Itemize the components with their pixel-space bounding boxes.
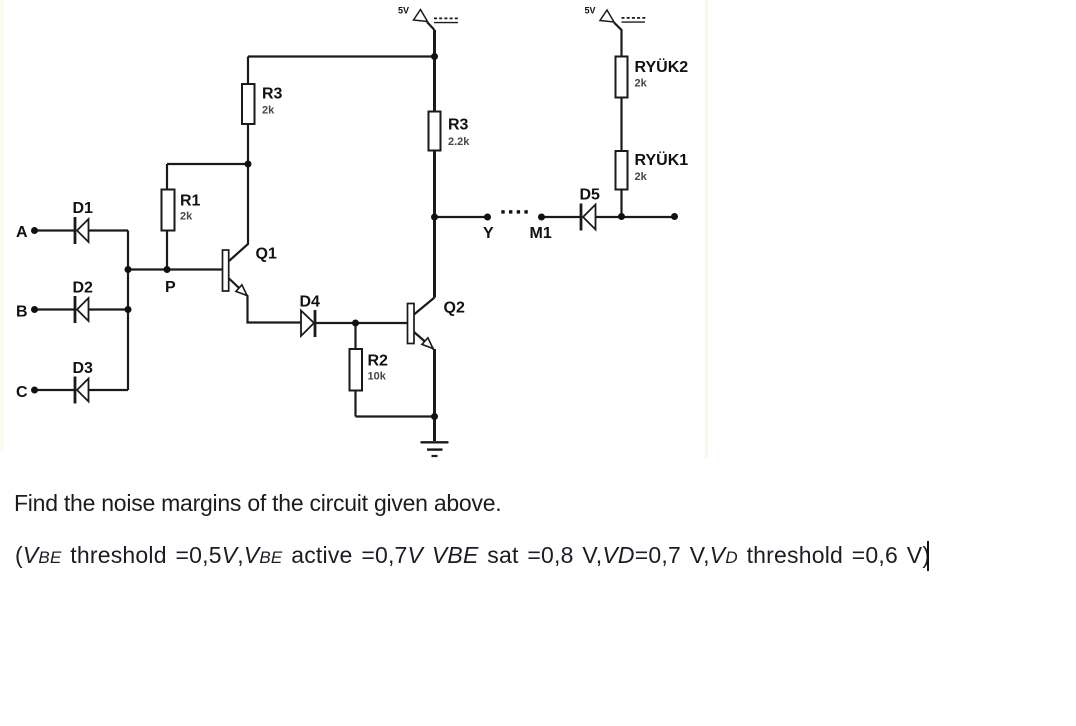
svg-text:2k: 2k [635, 171, 648, 183]
svg-text:R2: R2 [368, 353, 389, 370]
svg-text:2k: 2k [180, 211, 193, 223]
svg-text:2k: 2k [635, 78, 648, 90]
svg-text:D4: D4 [300, 294, 321, 311]
svg-text:A: A [16, 224, 28, 241]
svg-text:2.2k: 2.2k [448, 136, 470, 148]
svg-text:D5: D5 [580, 187, 601, 204]
svg-text:B: B [16, 304, 28, 321]
svg-text:P: P [165, 279, 176, 296]
svg-text:Q2: Q2 [444, 300, 465, 317]
svg-text:D1: D1 [73, 200, 94, 217]
svg-text:R1: R1 [180, 193, 201, 210]
svg-text:M1: M1 [530, 225, 552, 242]
svg-text:2k: 2k [262, 105, 275, 117]
svg-text:RYÜK1: RYÜK1 [635, 150, 689, 169]
svg-text:D2: D2 [73, 280, 94, 297]
svg-text:10k: 10k [368, 371, 387, 383]
svg-text:D3: D3 [73, 360, 94, 377]
svg-text:R3: R3 [262, 86, 283, 103]
svg-text:5V: 5V [585, 6, 596, 16]
svg-text:RYÜK2: RYÜK2 [635, 57, 689, 76]
svg-text:5V: 5V [398, 6, 409, 16]
svg-text:R3: R3 [448, 117, 469, 134]
svg-text:C: C [16, 384, 28, 401]
svg-text:Y: Y [483, 225, 494, 242]
svg-text:Q1: Q1 [256, 246, 277, 263]
